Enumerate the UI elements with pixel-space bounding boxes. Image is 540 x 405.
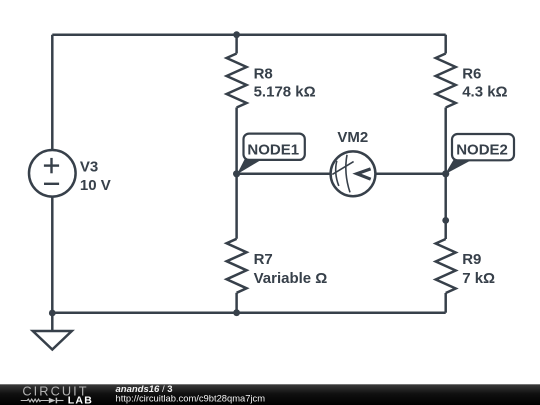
- svg-text:5.178 kΩ: 5.178 kΩ: [254, 84, 316, 101]
- wire top horizontal: [52, 33, 445, 36]
- wire right column top lead: [444, 35, 447, 54]
- junction dot bottom (R7/bottom wire): [233, 309, 240, 316]
- wire middle column between R8 and node1: [235, 108, 238, 174]
- svg-text:V3: V3: [80, 159, 98, 176]
- wire right column junction to R9: [444, 220, 447, 239]
- resistor R6: [436, 54, 456, 108]
- junction dot ground: [49, 310, 56, 317]
- junction dot top (R8/top wire): [233, 31, 240, 38]
- NODE1 callout box: [244, 134, 305, 160]
- voltmeter VM2 V glyph (rotated): [357, 169, 371, 179]
- V3 plus sign: [44, 158, 59, 184]
- wire left column upper: [51, 35, 54, 150]
- resistor R8: [227, 54, 247, 108]
- svg-text:NODE2: NODE2: [456, 141, 508, 158]
- NODE2 callout tail: [445, 159, 473, 174]
- svg-text:LAB: LAB: [68, 395, 93, 405]
- voltmeter VM2 body: [331, 151, 376, 196]
- footer bar: [0, 0, 1, 1]
- wire middle column top lead: [235, 35, 238, 54]
- wire node1 to voltmeter: [237, 173, 330, 176]
- svg-text:4.3 kΩ: 4.3 kΩ: [462, 84, 507, 101]
- wire R7 bottom lead: [235, 293, 238, 313]
- voltage source V3 circle: [29, 150, 76, 197]
- NODE2 callout box: [452, 134, 514, 160]
- svg-text:R9: R9: [462, 251, 481, 268]
- node NODE2 junction dot: [442, 170, 449, 177]
- logo diode: [49, 398, 56, 404]
- wire voltmeter to node2: [376, 173, 446, 176]
- voltmeter VM2 needle: [332, 162, 353, 175]
- wire middle column node1 to R7: [235, 174, 238, 239]
- svg-text:R6: R6: [462, 66, 481, 83]
- wire bottom horizontal: [52, 311, 445, 314]
- logo waveform wire: [21, 399, 49, 402]
- svg-text:Variable Ω: Variable Ω: [254, 270, 328, 287]
- junction dot right column: [442, 217, 449, 224]
- resistor R7: [227, 239, 247, 293]
- svg-text:VM2: VM2: [337, 129, 368, 146]
- wire right column node2 to junction: [444, 174, 447, 221]
- NODE1 callout tail: [237, 159, 263, 175]
- ground: [33, 331, 72, 350]
- svg-text:7 kΩ: 7 kΩ: [462, 270, 495, 287]
- svg-text:http://circuitlab.com/c9bt28qm: http://circuitlab.com/c9bt28qma7jcm: [116, 393, 266, 404]
- wire right column R6 to node2: [444, 108, 447, 174]
- node NODE1 junction dot: [233, 170, 240, 177]
- svg-text:R8: R8: [254, 66, 273, 83]
- svg-text:R7: R7: [254, 251, 273, 268]
- wire R9 bottom lead: [444, 293, 447, 313]
- svg-text:NODE1: NODE1: [247, 141, 299, 158]
- voltmeter VM2 meter arcs: [332, 155, 353, 193]
- svg-text:10 V: 10 V: [80, 177, 111, 194]
- wire left column lower: [51, 197, 54, 331]
- V3 minus sign: [44, 183, 59, 185]
- resistor R9: [436, 239, 456, 293]
